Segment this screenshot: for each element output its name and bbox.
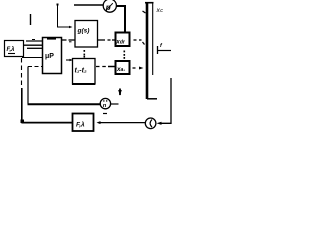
block g(s) (75, 21, 98, 48)
wire input stub y=41 into uP (26, 40, 42, 42)
svg-text:μP: μP (45, 53, 54, 60)
wire xa down-arrow to speed sensor (111, 89, 122, 105)
wire F-box to uP (input, doubled in scan) (24, 45, 42, 48)
svg-text:xa₁: xa₁ (116, 66, 125, 73)
svg-text:F,λ: F,λ (76, 121, 85, 129)
dotted link xdr to xa (124, 51, 126, 59)
wire g(s) output to xdr box (part dashed) (98, 39, 115, 41)
dotted link g(s) to t1-t2 (84, 50, 86, 58)
svg-text:F,λ: F,λ (7, 47, 15, 53)
wire t1-t2 output to xa box (dashed) (96, 66, 115, 68)
block t1-t2 (72, 59, 95, 85)
svg-text:g(s): g(s) (77, 28, 90, 35)
wire speed feedback horizontal (thick) (28, 103, 101, 105)
wire feedback stub y=66 into uP (dashed) (28, 66, 42, 68)
transducer box xdr (bold, upper) (115, 33, 129, 47)
label xc (156, 7, 164, 14)
wire xdr output dashes to rack (134, 40, 145, 45)
sensor circle p (top) (103, 0, 116, 12)
wire bottom feedback to left riser (22, 122, 72, 124)
wire left riser x=22 (solid low, dashed high) (21, 58, 25, 123)
svg-text:xdr: xdr (115, 39, 126, 46)
filter block F,lambda (bottom) (73, 114, 94, 132)
microprocessor U1 (uP box) (43, 38, 62, 74)
wire position feedback drop (right) (157, 78, 172, 125)
transducer box xa (bold, lower) (116, 61, 130, 74)
svg-text:p: p (105, 3, 111, 12)
wire feedback stub y=58 into uP (22, 57, 42, 59)
svg-text:xc: xc (156, 7, 164, 14)
node junction dot at top of riser (57, 4, 59, 6)
svg-text:n: n (103, 103, 107, 109)
sensor circle (position, bottom right) (145, 118, 156, 129)
wire bottom feedback to F-box (right segment) (97, 114, 146, 125)
wire sensor to vertical drop x=125 (116, 6, 125, 32)
wire arrow into t1-t2 (left) (66, 59, 73, 62)
rack bar (control rod) (143, 2, 158, 99)
wire uP output to g(s) (62, 40, 76, 42)
wire speed feedback riser x=28 (27, 67, 29, 104)
wire xa output arrow to rack (133, 67, 144, 70)
force arrow f at rack (158, 43, 172, 54)
wire riser x=57 with elbow into g(s) (58, 6, 73, 29)
sensor circle n (speed, bottom middle) (100, 98, 110, 108)
wire vertical dash (top-left input line) (30, 14, 32, 25)
wire top line to pressure sensor circle (74, 4, 103, 6)
block F,lambda (setpoint box, left) (5, 41, 24, 57)
svg-text:t₁-t₂: t₁-t₂ (75, 68, 87, 75)
